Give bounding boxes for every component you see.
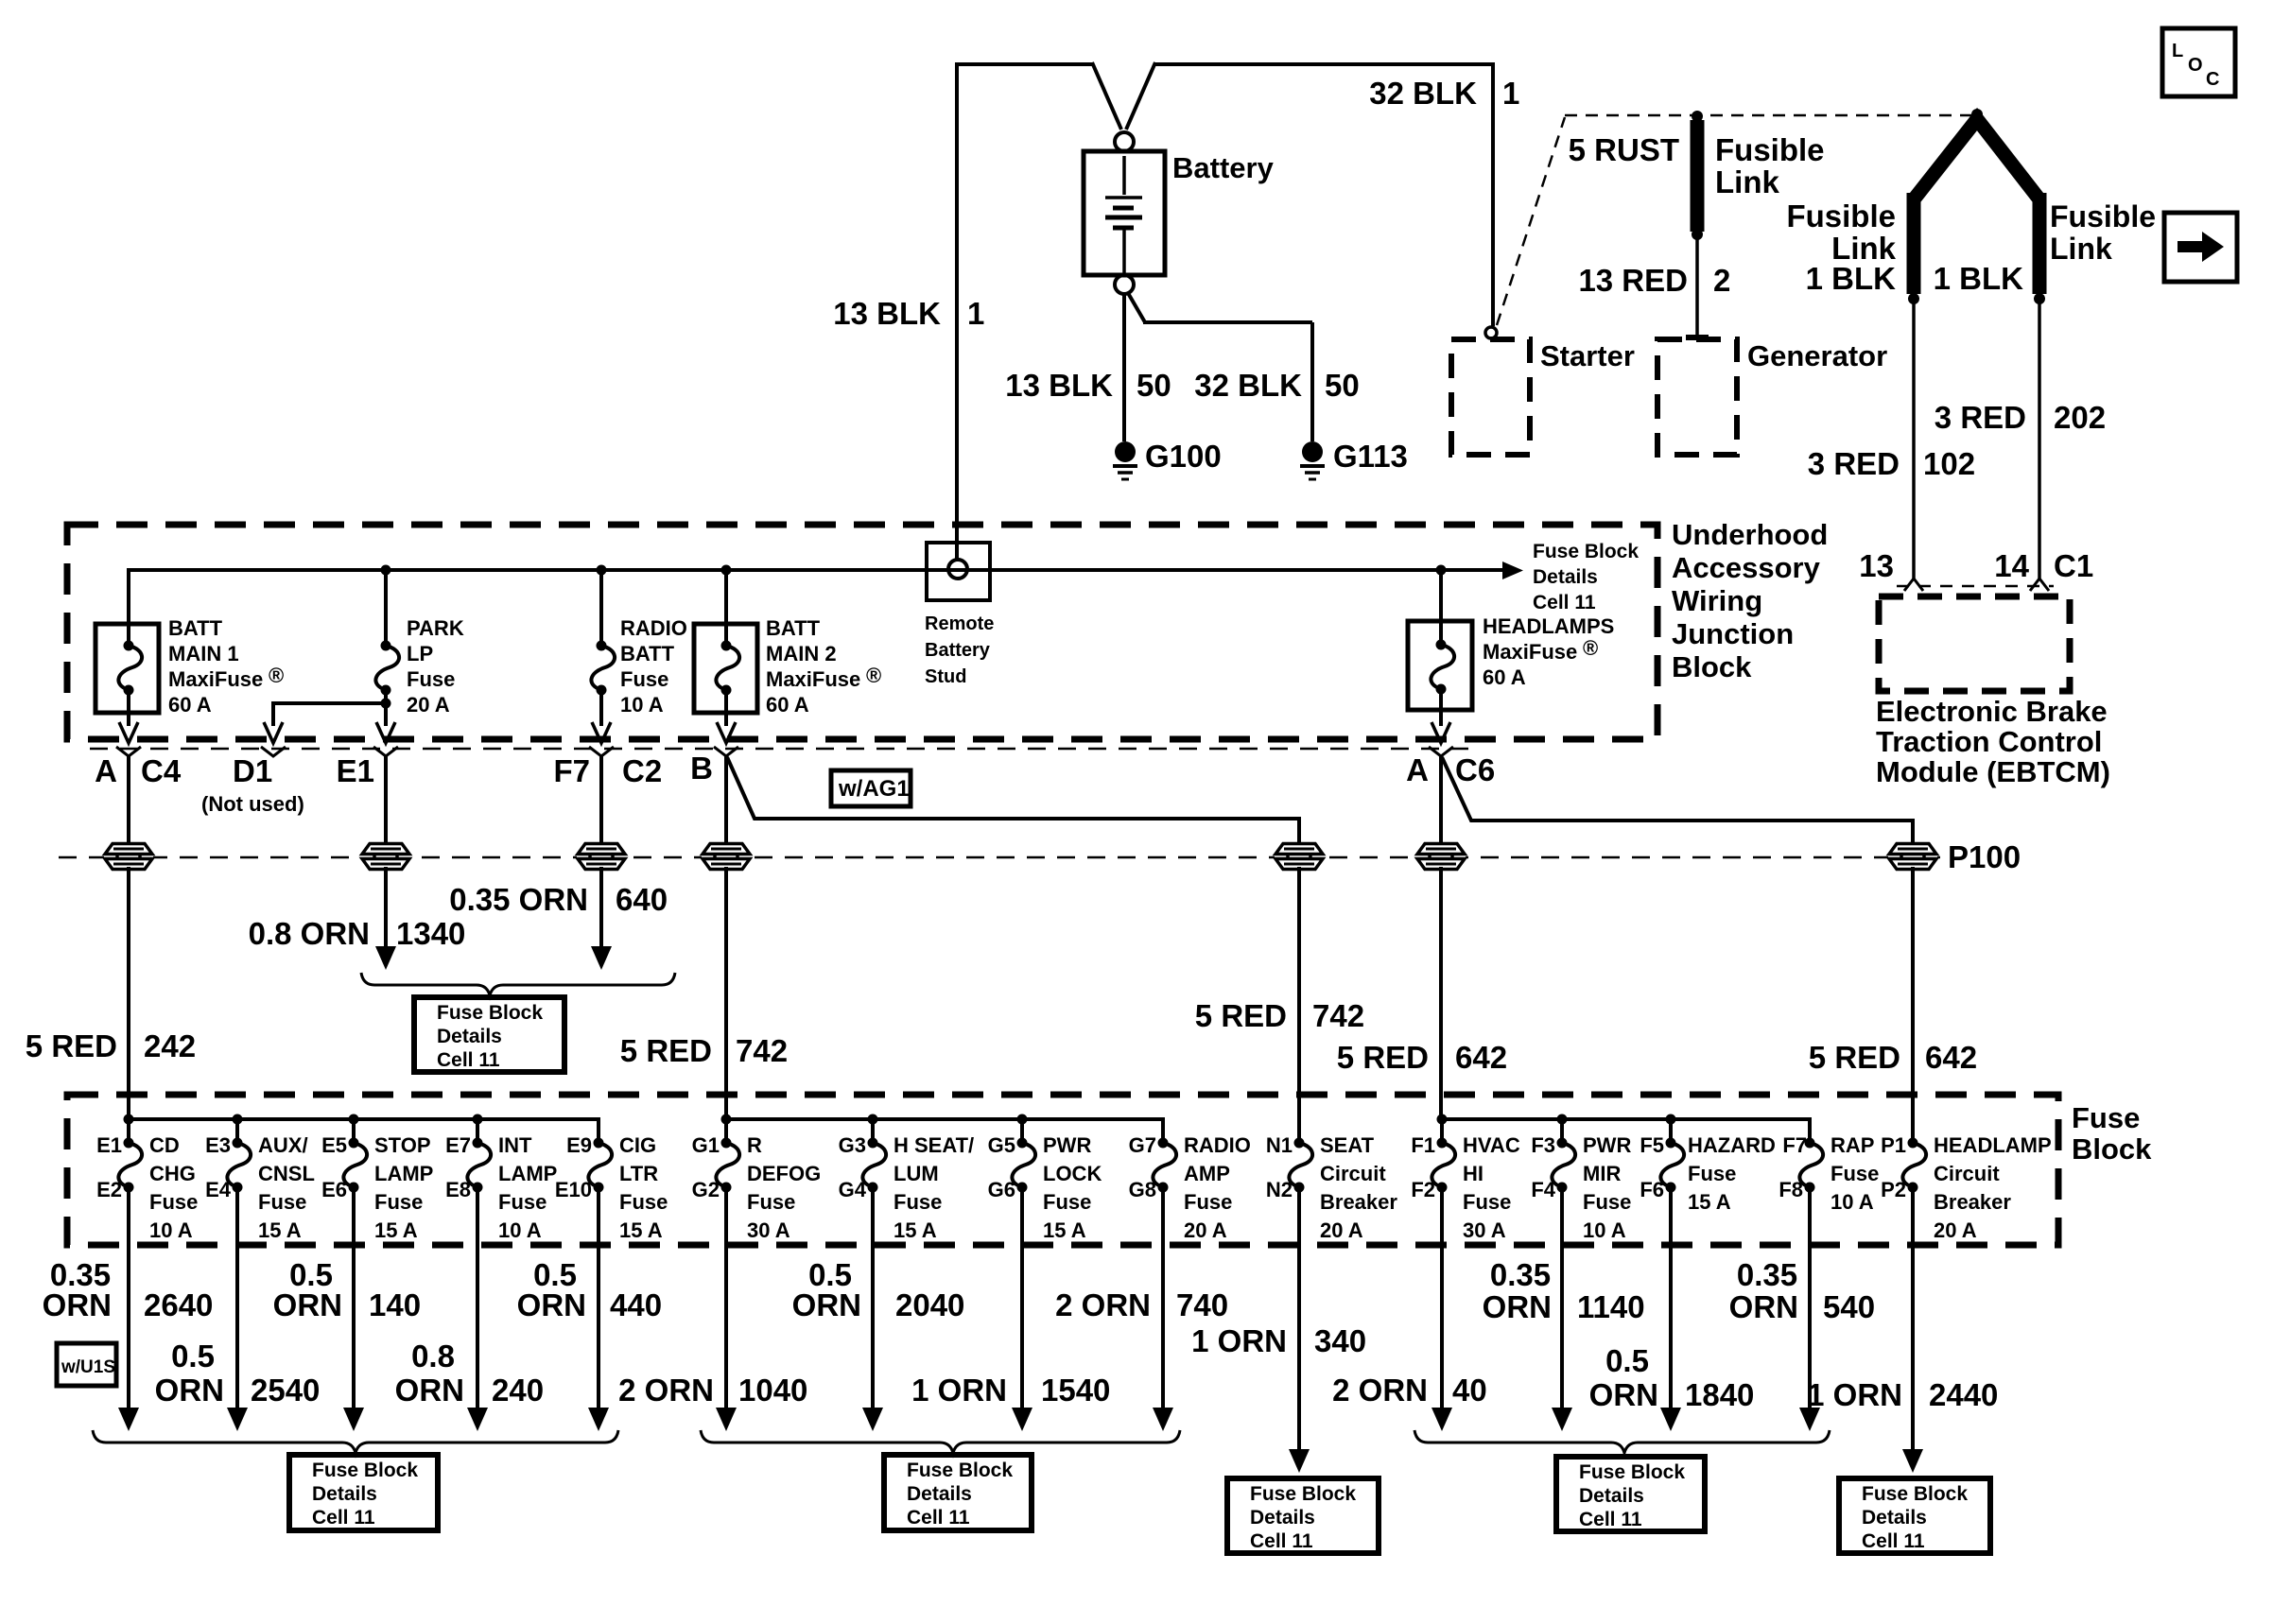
svg-text:G6: G6 — [988, 1178, 1015, 1201]
svg-text:Fuse: Fuse — [2072, 1101, 2140, 1134]
wire 0.35 ORN 640 — [599, 867, 603, 947]
wire A C4 to P100 — [127, 756, 130, 850]
svg-text:CIG: CIG — [619, 1133, 656, 1157]
svg-text:2 ORN: 2 ORN — [1055, 1287, 1151, 1322]
svg-text:AMP: AMP — [1184, 1162, 1230, 1185]
node - PARK LP output branch to D1 — [381, 699, 391, 709]
wire 32 BLK 50 horizontal — [1143, 320, 1312, 324]
wire stub to PARK LP fuse — [384, 570, 388, 646]
fuse PWR LOCK (G5/G6) element — [1012, 1143, 1035, 1187]
svg-text:Fuse Block: Fuse Block — [1250, 1483, 1356, 1505]
fuse PWR MIR (F3/F4) element — [1552, 1143, 1575, 1187]
LOC legend box — [2162, 28, 2235, 96]
connector D1 (not used) — [261, 747, 286, 756]
arrow 0.8 ORN 1340 — [375, 946, 396, 970]
fusible link 5 RUST element — [1691, 120, 1705, 232]
svg-text:INT: INT — [498, 1133, 532, 1157]
svg-text:Accessory: Accessory — [1672, 551, 1821, 584]
node - PARK LP fuse tap — [381, 565, 391, 576]
svg-text:BATT: BATT — [168, 616, 223, 640]
wire fuse output x374 to fuse block details — [352, 1187, 356, 1410]
ground G100 — [1115, 441, 1136, 462]
svg-text:Wiring: Wiring — [1672, 584, 1762, 617]
svg-text:E8: E8 — [445, 1178, 471, 1201]
wire splice V right leg to battery positive — [1126, 62, 1155, 130]
svg-text:L: L — [2172, 41, 2183, 61]
svg-text:60 A: 60 A — [168, 693, 212, 717]
svg-text:C6: C6 — [1455, 752, 1495, 787]
arrow BATT MAIN 2 output — [717, 722, 736, 743]
svg-text:Electronic Brake: Electronic Brake — [1876, 695, 2108, 728]
svg-text:742: 742 — [1312, 998, 1364, 1033]
svg-text:HI: HI — [1463, 1162, 1484, 1185]
svg-text:Fuse: Fuse — [1831, 1162, 1879, 1185]
svg-text:Fuse: Fuse — [894, 1190, 942, 1214]
svg-text:15 A: 15 A — [619, 1218, 663, 1242]
wire 32 BLK circuit 50 - branch diagonal — [1128, 293, 1145, 322]
svg-text:H SEAT/: H SEAT/ — [894, 1133, 974, 1157]
svg-text:E5: E5 — [321, 1133, 347, 1157]
remote battery stud box — [927, 543, 990, 600]
arrow fuse output x1081 — [1012, 1408, 1032, 1431]
svg-text:2: 2 — [1713, 263, 1730, 298]
module EBTCM dashed box — [1879, 596, 2070, 691]
wire fuse output x505 to fuse block details — [476, 1187, 479, 1410]
svg-text:2440: 2440 — [1929, 1377, 1998, 1412]
svg-text:PWR: PWR — [1583, 1133, 1631, 1157]
svg-text:HEADLAMPS: HEADLAMPS — [1483, 614, 1614, 638]
svg-text:HAZARD: HAZARD — [1688, 1133, 1776, 1157]
svg-text:G3: G3 — [839, 1133, 866, 1157]
fuse STOP LAMP (E5/E6) element — [343, 1143, 367, 1187]
svg-text:20 A: 20 A — [1934, 1218, 1977, 1242]
svg-text:1340: 1340 — [396, 916, 465, 951]
node - E bus tap x505 — [473, 1114, 483, 1125]
svg-text:Module (EBTCM): Module (EBTCM) — [1876, 755, 2110, 788]
fuse block dashed border — [67, 1095, 2058, 1245]
P100 grommet - SEAT feed wire — [1275, 843, 1324, 870]
fusible link 1 BLK left leg — [1914, 119, 2039, 199]
node - E bus tap x374 — [349, 1114, 359, 1125]
svg-text:240: 240 — [492, 1373, 544, 1408]
arrow fuse output x1652 — [1552, 1408, 1572, 1431]
svg-text:Details: Details — [1250, 1507, 1315, 1529]
svg-text:1540: 1540 — [1041, 1373, 1110, 1408]
svg-text:2 ORN: 2 ORN — [618, 1373, 714, 1408]
continuation arrow box — [2164, 213, 2237, 282]
svg-text:Link: Link — [1715, 164, 1779, 199]
svg-text:5 RED: 5 RED — [1337, 1040, 1429, 1075]
svg-text:Details: Details — [1579, 1485, 1644, 1507]
svg-text:Fusible: Fusible — [1786, 199, 1896, 233]
svg-text:E9: E9 — [566, 1133, 592, 1157]
svg-text:G5: G5 — [988, 1133, 1015, 1157]
svg-text:A: A — [95, 753, 117, 788]
svg-text:1 ORN: 1 ORN — [911, 1373, 1007, 1408]
wire stub to fuse HAZARD Fuse — [1669, 1119, 1673, 1143]
svg-text:R: R — [747, 1133, 762, 1157]
svg-text:BATT: BATT — [620, 642, 675, 665]
wire fuse output x1767 to fuse block details — [1669, 1187, 1673, 1410]
arrow PARK LP output — [376, 722, 395, 743]
wire 3 RED circuit 102 to EBTCM pin 13 — [1912, 302, 1916, 579]
svg-text:O: O — [2188, 55, 2203, 76]
svg-text:13 BLK: 13 BLK — [1005, 368, 1113, 403]
svg-text:0.35: 0.35 — [1490, 1257, 1551, 1292]
wire stub to RADIO BATT fuse — [599, 570, 603, 646]
svg-text:Remote: Remote — [925, 613, 994, 634]
svg-text:Stud: Stud — [925, 666, 966, 687]
svg-text:0.35 ORN: 0.35 ORN — [449, 882, 588, 917]
wire E1 to P100 — [384, 756, 388, 850]
svg-text:Underhood: Underhood — [1672, 518, 1828, 551]
svg-text:Fuse: Fuse — [498, 1190, 547, 1214]
svg-text:Fuse: Fuse — [1043, 1190, 1091, 1214]
svg-text:Fuse: Fuse — [407, 667, 455, 691]
svg-text:Fuse: Fuse — [374, 1190, 423, 1214]
svg-text:PWR: PWR — [1043, 1133, 1091, 1157]
svg-text:G7: G7 — [1129, 1133, 1156, 1157]
svg-text:MIR: MIR — [1583, 1162, 1621, 1185]
svg-text:Fusible: Fusible — [1715, 132, 1825, 167]
svg-text:CD: CD — [149, 1133, 180, 1157]
svg-text:242: 242 — [144, 1028, 196, 1063]
svg-text:5 RED: 5 RED — [26, 1028, 117, 1063]
dashed connector line C1 — [1897, 585, 2054, 588]
wire RADIO BATT output — [599, 690, 603, 726]
wire splice V left leg to battery positive — [1092, 62, 1121, 130]
svg-text:F3: F3 — [1531, 1133, 1555, 1157]
svg-text:13 RED: 13 RED — [1578, 263, 1688, 298]
fuse R DEFOG (G1/G2) element — [716, 1143, 739, 1187]
svg-text:E10: E10 — [555, 1178, 592, 1201]
svg-text:LOCK: LOCK — [1043, 1162, 1102, 1185]
wire stub to fuse HVAC HI — [1440, 1119, 1444, 1143]
svg-text:ORN: ORN — [43, 1287, 112, 1322]
svg-text:ORN: ORN — [273, 1287, 342, 1322]
svg-text:742: 742 — [736, 1033, 788, 1068]
svg-text:1 BLK: 1 BLK — [1806, 261, 1897, 296]
pin 13 connector — [1904, 579, 1923, 591]
svg-text:Breaker: Breaker — [1934, 1190, 2011, 1214]
svg-text:5 RED: 5 RED — [1195, 998, 1287, 1033]
svg-text:10 A: 10 A — [149, 1218, 193, 1242]
svg-text:G1: G1 — [692, 1133, 720, 1157]
arrow HEADLAMPS output — [1431, 722, 1450, 743]
svg-text:D1: D1 — [233, 753, 272, 788]
svg-text:5 RED: 5 RED — [620, 1033, 712, 1068]
svg-text:P1: P1 — [1881, 1133, 1906, 1157]
wire stub to HEADLAMPS fuse — [1439, 570, 1443, 645]
svg-text:MaxiFuse: MaxiFuse — [168, 667, 263, 691]
arrow BATT MAIN 1 output — [119, 722, 138, 743]
starter box — [1451, 339, 1530, 455]
wire B to P100 — [724, 756, 728, 850]
connector B — [714, 747, 738, 756]
arrow fuse output x251 — [227, 1408, 248, 1431]
svg-text:1 ORN: 1 ORN — [1191, 1323, 1287, 1358]
battery box — [1084, 151, 1165, 275]
wire 5 RED 642 (HEADLAMP) to fuse block — [1911, 867, 1915, 1143]
wire PARK LP output — [384, 690, 388, 726]
svg-text:MaxiFuse: MaxiFuse — [766, 667, 860, 691]
svg-text:Cell 11: Cell 11 — [1579, 1509, 1642, 1530]
wire fuse output x251 to fuse block details — [235, 1187, 239, 1410]
svg-text:LP: LP — [407, 642, 433, 665]
svg-text:®: ® — [269, 664, 284, 687]
wire BATT MAIN 2 output — [724, 690, 728, 726]
svg-text:15 A: 15 A — [1043, 1218, 1086, 1242]
svg-text:Fuse: Fuse — [619, 1190, 668, 1214]
svg-text:Starter: Starter — [1540, 339, 1635, 372]
arrow fuse output x505 — [467, 1408, 488, 1431]
svg-text:0.5: 0.5 — [1605, 1343, 1649, 1378]
svg-text:Fuse: Fuse — [747, 1190, 795, 1214]
svg-text:Link: Link — [2050, 232, 2112, 266]
svg-text:Fuse: Fuse — [1583, 1190, 1631, 1214]
svg-text:20 A: 20 A — [1184, 1218, 1227, 1242]
svg-text:32 BLK: 32 BLK — [1194, 368, 1302, 403]
wire branch from A C6 to headlamp breaker feed — [1442, 757, 1913, 850]
wire stub to fuse CD CHG — [127, 1119, 130, 1143]
wire 32 BLK circuit 1 - top horizontal to starter drop — [1154, 62, 1495, 66]
svg-text:G8: G8 — [1129, 1178, 1156, 1201]
fuse block details box (HEADLAMP) — [1839, 1478, 1990, 1553]
svg-text:0.8: 0.8 — [411, 1339, 455, 1373]
svg-text:13 BLK: 13 BLK — [833, 296, 941, 331]
svg-text:E7: E7 — [445, 1133, 471, 1157]
svg-text:14: 14 — [1994, 548, 2029, 583]
svg-text:202: 202 — [2054, 400, 2106, 435]
svg-text:642: 642 — [1925, 1040, 1977, 1075]
svg-text:RAP: RAP — [1831, 1133, 1874, 1157]
svg-text:Cell 11: Cell 11 — [1533, 592, 1596, 613]
svg-text:G2: G2 — [692, 1178, 720, 1201]
svg-text:RADIO: RADIO — [1184, 1133, 1251, 1157]
node - F bus tap x1652 — [1557, 1114, 1568, 1125]
svg-text:Fuse: Fuse — [1184, 1190, 1232, 1214]
svg-text:Battery: Battery — [925, 640, 991, 661]
wire fuse output x1230 to fuse block details — [1161, 1187, 1165, 1410]
svg-text:C2: C2 — [622, 753, 662, 788]
dashed fusible link rail — [1565, 114, 1975, 117]
svg-text:Junction: Junction — [1672, 617, 1794, 650]
fusible link 1 BLK right leg — [2033, 193, 2047, 294]
svg-text:1: 1 — [1502, 76, 1519, 111]
svg-text:F8: F8 — [1778, 1178, 1803, 1201]
svg-text:Block: Block — [2072, 1132, 2152, 1166]
svg-text:(Not used): (Not used) — [201, 792, 304, 816]
svg-text:1040: 1040 — [738, 1373, 807, 1408]
arrow fuse output x136 — [118, 1408, 139, 1431]
P100 grommet - C6 wire — [1416, 843, 1466, 870]
node - left fusible link bottom — [1908, 293, 1919, 304]
wire stub to BATT MAIN 1 — [127, 570, 130, 646]
node - 5 RUST fusible link bottom — [1692, 229, 1703, 240]
svg-text:0.5: 0.5 — [171, 1339, 215, 1373]
svg-text:Details: Details — [1862, 1507, 1927, 1529]
svg-text:F2: F2 — [1411, 1178, 1435, 1201]
svg-text:Details: Details — [437, 1026, 502, 1047]
node - E bus tap x251 — [233, 1114, 243, 1125]
svg-text:5 RUST: 5 RUST — [1569, 132, 1679, 167]
node - G bus tap x768 — [721, 1114, 732, 1125]
svg-text:740: 740 — [1176, 1287, 1228, 1322]
svg-text:C4: C4 — [141, 753, 182, 788]
fuse HVAC HI (F1/F2) element — [1431, 1143, 1455, 1187]
arrow fuse output x768 — [716, 1408, 737, 1431]
svg-text:3 RED: 3 RED — [1808, 446, 1900, 481]
svg-text:B: B — [690, 751, 713, 786]
fuse block details box (F group) — [1556, 1457, 1705, 1531]
svg-text:P2: P2 — [1881, 1178, 1906, 1201]
bus wire E fuses — [127, 1119, 599, 1143]
fuse block details box (G group) — [884, 1455, 1032, 1530]
fuse INT LAMP (E7/E8) element — [467, 1143, 491, 1187]
svg-text:N1: N1 — [1266, 1133, 1293, 1157]
svg-text:ORN: ORN — [395, 1373, 464, 1408]
underhood accessory wiring junction block dashed border — [67, 525, 1657, 739]
svg-text:CHG: CHG — [149, 1162, 196, 1185]
svg-text:20 A: 20 A — [407, 693, 450, 717]
svg-text:Fuse: Fuse — [1688, 1162, 1736, 1185]
P100 grommet - headlamp feed wire — [1888, 843, 1937, 870]
svg-text:10 A: 10 A — [620, 693, 664, 717]
bus wire F fuses — [1442, 1119, 1810, 1143]
svg-text:C1: C1 — [2054, 548, 2093, 583]
w/U1S option box — [57, 1343, 116, 1386]
svg-text:540: 540 — [1823, 1289, 1875, 1324]
dashed P100 connector line — [59, 856, 1940, 859]
generator box — [1657, 339, 1737, 455]
svg-text:1140: 1140 — [1577, 1289, 1645, 1324]
svg-text:1 ORN: 1 ORN — [1807, 1377, 1902, 1412]
svg-text:Circuit: Circuit — [1320, 1162, 1386, 1185]
svg-text:15 A: 15 A — [258, 1218, 302, 1242]
fuse H SEAT/ LUM (G3/G4) element — [862, 1143, 886, 1187]
svg-text:Cell 11: Cell 11 — [437, 1049, 500, 1071]
svg-text:140: 140 — [369, 1287, 421, 1322]
svg-text:MAIN 2: MAIN 2 — [766, 642, 837, 665]
svg-text:MAIN 1: MAIN 1 — [168, 642, 239, 665]
svg-text:E4: E4 — [205, 1178, 232, 1201]
fuse HEADLAMPS element — [1431, 645, 1454, 689]
wire stub to fuse R DEFOG — [724, 1119, 728, 1143]
svg-text:E1: E1 — [337, 753, 374, 788]
wire fuse output x1525 to fuse block details — [1440, 1187, 1444, 1410]
svg-text:G4: G4 — [839, 1178, 867, 1201]
wire 3 RED circuit 202 to EBTCM pin 14 — [2038, 302, 2041, 579]
svg-text:Cell 11: Cell 11 — [907, 1507, 970, 1529]
node - F bus tap x1525 — [1437, 1114, 1448, 1125]
wire F7 C2 to P100 — [599, 756, 603, 850]
svg-text:Breaker: Breaker — [1320, 1190, 1397, 1214]
fuse block details box (middle) — [414, 997, 564, 1072]
svg-text:30 A: 30 A — [1463, 1218, 1506, 1242]
svg-text:F5: F5 — [1640, 1133, 1664, 1157]
wire branch to D1 — [273, 703, 386, 726]
svg-text:2 ORN: 2 ORN — [1332, 1373, 1428, 1408]
svg-text:E1: E1 — [96, 1133, 122, 1157]
arrow SEAT breaker output — [1289, 1449, 1310, 1473]
svg-text:0.8 ORN: 0.8 ORN — [249, 916, 370, 951]
svg-text:1: 1 — [967, 296, 984, 331]
svg-text:640: 640 — [616, 882, 668, 917]
wire stub to fuse PWR MIR — [1560, 1119, 1564, 1143]
svg-text:Battery: Battery — [1172, 151, 1275, 184]
fuse SEAT Circuit (N1/N2) element — [1289, 1143, 1312, 1187]
remote battery stud terminal circle — [948, 560, 967, 579]
svg-text:32 BLK: 32 BLK — [1369, 76, 1477, 111]
wire A C6 to P100 — [1439, 756, 1443, 850]
svg-text:F7: F7 — [1782, 1133, 1807, 1157]
arrow HEADLAMP breaker output — [1902, 1449, 1923, 1473]
svg-text:Fuse Block: Fuse Block — [1533, 541, 1639, 562]
fuse BATT MAIN 1 MaxiFuse 60 A box — [95, 624, 159, 713]
svg-text:15 A: 15 A — [894, 1218, 937, 1242]
wire stub to fuse AUX/ CNSL — [235, 1119, 239, 1143]
arrow fuse output x1914 — [1799, 1408, 1820, 1431]
bus arrowhead to fuse block details — [1502, 561, 1523, 579]
brace - E fuse outputs — [93, 1430, 618, 1453]
svg-text:Fuse Block: Fuse Block — [312, 1460, 418, 1481]
fuse block details box (SEAT) — [1227, 1478, 1379, 1553]
svg-text:MaxiFuse: MaxiFuse — [1483, 640, 1577, 664]
svg-text:Fuse Block: Fuse Block — [437, 1002, 543, 1024]
node - RADIO BATT fuse tap — [597, 565, 607, 576]
svg-text:P100: P100 — [1948, 839, 2021, 874]
brace - fuse block details (middle) — [361, 973, 675, 995]
svg-text:1840: 1840 — [1685, 1377, 1754, 1412]
svg-text:BATT: BATT — [766, 616, 821, 640]
wire 0.8 ORN 1340 — [384, 867, 388, 947]
wire 5 RED 742 (B) to fuse block — [724, 867, 728, 1119]
wire 13 BLK 1 vertical drop to remote battery stud — [955, 62, 959, 560]
svg-text:Cell 11: Cell 11 — [312, 1507, 375, 1529]
wire stub to fuse PWR LOCK — [1020, 1119, 1024, 1143]
wire 13 BLK circuit 1 - top horizontal from battery splice to left drop — [955, 62, 1094, 66]
bus wire - battery feed inside junction block — [127, 568, 1513, 572]
svg-text:Circuit: Circuit — [1934, 1162, 2000, 1185]
arrow D1 branch — [264, 722, 283, 743]
svg-text:LAMP: LAMP — [374, 1162, 433, 1185]
P100 grommet - F7 wire — [577, 843, 626, 870]
svg-text:1 BLK: 1 BLK — [1934, 261, 2024, 296]
svg-text:Cell 11: Cell 11 — [1862, 1530, 1925, 1552]
wire fuse output x1081 to fuse block details — [1020, 1187, 1024, 1410]
svg-text:20 A: 20 A — [1320, 1218, 1363, 1242]
svg-text:Generator: Generator — [1747, 339, 1887, 372]
svg-text:LAMP: LAMP — [498, 1162, 557, 1185]
fuse block details box (E group) — [289, 1455, 438, 1530]
bus wire G fuses — [726, 1119, 1163, 1143]
svg-text:C: C — [2206, 69, 2219, 90]
wire HEADLAMPS output — [1439, 689, 1443, 726]
node - 5 RUST fusible link top — [1692, 111, 1703, 122]
P100 grommet - E1 wire — [361, 843, 410, 870]
svg-text:13: 13 — [1859, 548, 1894, 583]
pin 14 connector — [2030, 579, 2049, 591]
w/AG1 option box — [831, 770, 911, 806]
svg-text:CNSL: CNSL — [258, 1162, 315, 1185]
svg-text:F6: F6 — [1640, 1178, 1664, 1201]
svg-text:ORN: ORN — [1483, 1289, 1552, 1324]
svg-text:60 A: 60 A — [766, 693, 809, 717]
wire 5 RED 642 (HVAC) to fuse block — [1439, 867, 1443, 1119]
svg-text:PARK: PARK — [407, 616, 464, 640]
svg-text:10 A: 10 A — [1831, 1190, 1874, 1214]
svg-text:E2: E2 — [96, 1178, 122, 1201]
